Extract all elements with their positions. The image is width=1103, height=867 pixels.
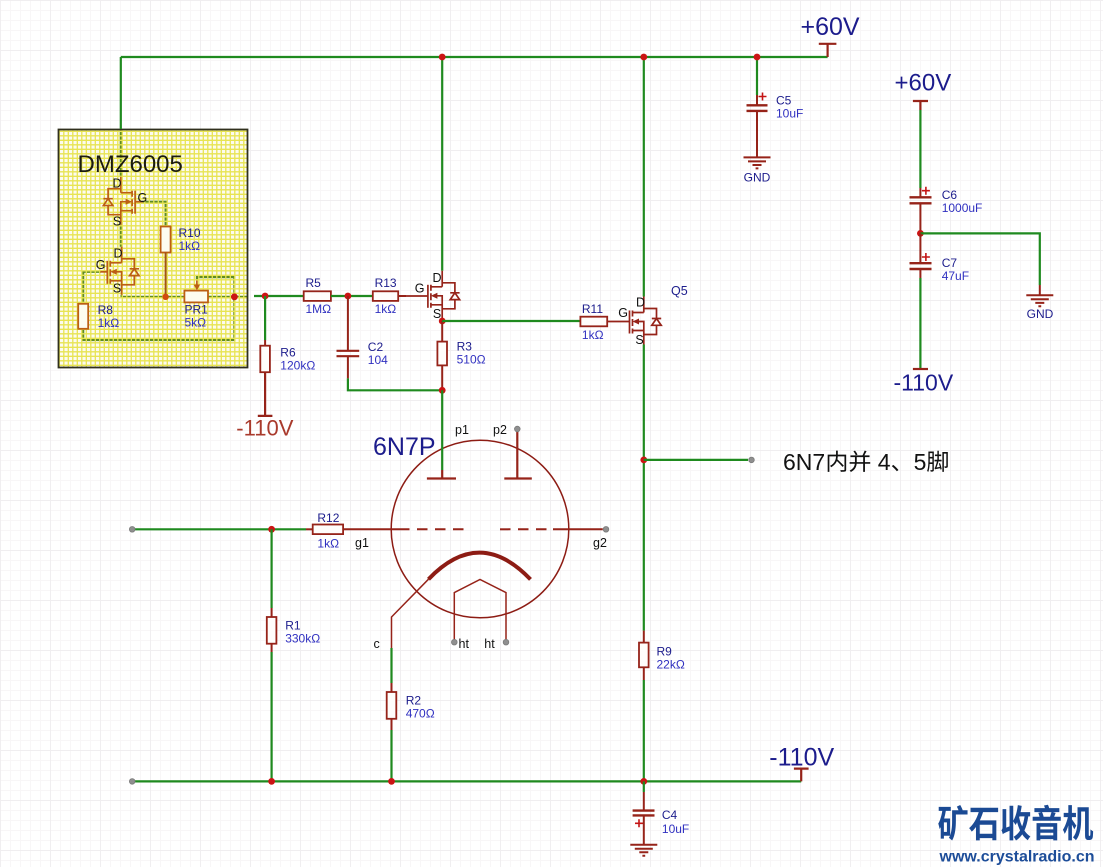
svg-text:120kΩ: 120kΩ bbox=[280, 358, 315, 372]
cathode lead c bbox=[392, 579, 429, 648]
highlight box DMZ6005 bbox=[59, 130, 248, 368]
ground below C5 bbox=[744, 157, 771, 168]
box border bbox=[59, 130, 248, 368]
transistor unnamed MOSFET near R13 bbox=[398, 295, 428, 297]
svg-text:1kΩ: 1kΩ bbox=[375, 302, 397, 316]
wire Q5 source down bbox=[643, 345, 645, 631]
junction PR1 right bbox=[231, 293, 238, 300]
svg-text:PR1: PR1 bbox=[185, 303, 209, 317]
svg-text:D: D bbox=[636, 296, 645, 310]
resistor R10 bbox=[161, 227, 171, 253]
wire between MOSFETs bbox=[120, 225, 122, 247]
svg-text:1000uF: 1000uF bbox=[942, 201, 983, 215]
capacitor C2 bbox=[347, 296, 349, 351]
wire 6N7 tap bbox=[644, 459, 748, 461]
svg-text:R3: R3 bbox=[457, 340, 473, 354]
svg-text:-110V: -110V bbox=[769, 744, 834, 772]
svg-text:22kΩ: 22kΩ bbox=[657, 657, 685, 671]
svg-text:G: G bbox=[618, 306, 628, 320]
svg-text:1kΩ: 1kΩ bbox=[179, 239, 201, 253]
junction node R6 bbox=[262, 293, 269, 300]
wire R8 to bottom loop bbox=[83, 277, 234, 340]
wire R6 to -110V bbox=[258, 372, 273, 416]
svg-text:5kΩ: 5kΩ bbox=[185, 316, 207, 330]
svg-text:G: G bbox=[415, 282, 425, 296]
svg-text:R13: R13 bbox=[375, 276, 397, 290]
wire vertical to Q1 drain bbox=[441, 57, 443, 271]
svg-text:c: c bbox=[374, 637, 380, 651]
resistor R1 bbox=[271, 529, 273, 608]
junction top rail A bbox=[439, 54, 446, 61]
junction node C2 bbox=[345, 293, 352, 300]
svg-text:-110V: -110V bbox=[894, 370, 954, 396]
wire PR1 to box edge bbox=[208, 296, 248, 298]
wire top rail feed into box bbox=[120, 130, 122, 177]
wire R13 to gate bbox=[398, 295, 406, 297]
svg-text:47uF: 47uF bbox=[942, 269, 969, 283]
transistor Q5 bbox=[607, 321, 629, 323]
svg-text:C4: C4 bbox=[662, 808, 678, 822]
resistor R5 bbox=[304, 291, 331, 301]
svg-text:C7: C7 bbox=[942, 256, 958, 270]
svg-text:S: S bbox=[635, 333, 643, 347]
wire S to R11 bbox=[442, 320, 580, 322]
svg-text:g1: g1 bbox=[355, 536, 369, 550]
resistor R13 bbox=[373, 291, 398, 301]
capacitor C6 bbox=[919, 188, 921, 197]
svg-text:Q5: Q5 bbox=[671, 284, 688, 298]
svg-text:1kΩ: 1kΩ bbox=[317, 537, 339, 551]
grid wire g1 g2 bbox=[343, 528, 399, 530]
junction top rail B bbox=[640, 54, 647, 61]
wire lower source to node bbox=[122, 295, 185, 297]
svg-text:g2: g2 bbox=[593, 536, 607, 550]
transistor upper MOSFET in DMZ6005 bbox=[103, 177, 135, 225]
wire R10 to node bbox=[165, 253, 167, 297]
svg-text:R6: R6 bbox=[280, 345, 296, 359]
wire lower gate to R8 bbox=[83, 272, 101, 304]
transistor lower MOSFET in DMZ6005 bbox=[107, 247, 139, 295]
capacitor C7 bbox=[919, 233, 921, 263]
svg-text:S: S bbox=[113, 215, 121, 229]
svg-text:G: G bbox=[138, 191, 148, 205]
svg-text:ht: ht bbox=[459, 637, 470, 651]
svg-text:10uF: 10uF bbox=[776, 107, 803, 121]
junction 6N7 tap bbox=[640, 457, 647, 464]
svg-text:1kΩ: 1kΩ bbox=[582, 328, 604, 342]
svg-text:510Ω: 510Ω bbox=[457, 353, 486, 367]
svg-text:D: D bbox=[112, 177, 121, 191]
power port -110V right bbox=[913, 368, 928, 370]
power port +60V top bbox=[819, 44, 837, 57]
resistor R11 bbox=[580, 317, 607, 327]
svg-text:1MΩ: 1MΩ bbox=[306, 302, 332, 316]
svg-text:C5: C5 bbox=[776, 94, 792, 108]
svg-text:R2: R2 bbox=[406, 694, 422, 708]
wire upper gate to R10 bbox=[142, 202, 166, 227]
svg-text:GND: GND bbox=[744, 171, 771, 185]
svg-text:104: 104 bbox=[368, 353, 388, 367]
svg-text:R8: R8 bbox=[98, 303, 114, 317]
svg-text:R9: R9 bbox=[657, 644, 673, 658]
potentiometer PR1 bbox=[184, 291, 208, 303]
svg-text:C6: C6 bbox=[942, 188, 958, 202]
watermark bbox=[938, 805, 967, 840]
svg-text:R11: R11 bbox=[582, 302, 603, 316]
svg-text:5: 5 bbox=[914, 449, 927, 475]
svg-text:1kΩ: 1kΩ bbox=[98, 316, 120, 330]
svg-text:GND: GND bbox=[1027, 307, 1054, 321]
svg-text:6N7: 6N7 bbox=[783, 449, 825, 475]
junction R10 node bbox=[162, 294, 168, 300]
svg-text:470Ω: 470Ω bbox=[406, 707, 435, 721]
junction bottom R2 bbox=[388, 778, 395, 785]
wire bottom rail bbox=[132, 780, 801, 782]
resistor R9 bbox=[643, 631, 645, 643]
resistor R12 bbox=[306, 528, 313, 530]
mesh overlay bbox=[59, 130, 248, 368]
resistor R3 bbox=[441, 321, 443, 342]
svg-text:+60V: +60V bbox=[801, 13, 860, 41]
svg-text:330kΩ: 330kΩ bbox=[285, 631, 320, 645]
resistor R8 bbox=[78, 304, 88, 329]
svg-text:www.crystalradio.cn: www.crystalradio.cn bbox=[939, 849, 1095, 866]
wire to GND right bbox=[920, 233, 1039, 285]
junction below R3 bbox=[439, 387, 446, 394]
junction R1 top bbox=[268, 526, 275, 533]
plate p2 bbox=[504, 429, 532, 479]
resistor R6 bbox=[260, 346, 270, 373]
svg-text:+60V: +60V bbox=[895, 70, 952, 97]
power port -110V bottom bbox=[794, 769, 809, 782]
svg-text:6N7P: 6N7P bbox=[373, 433, 436, 461]
svg-text:R12: R12 bbox=[317, 511, 339, 525]
svg-text:R1: R1 bbox=[285, 618, 301, 632]
svg-text:G: G bbox=[96, 258, 106, 272]
wire C5 branch bbox=[756, 57, 758, 95]
plate p1 bbox=[441, 390, 443, 470]
wire input row bbox=[132, 528, 306, 530]
junction top rail C5 bbox=[754, 54, 761, 61]
svg-text:DMZ6005: DMZ6005 bbox=[78, 151, 183, 178]
wire R5 to R13 bbox=[331, 295, 373, 297]
svg-text:-110V: -110V bbox=[236, 416, 293, 441]
svg-text:p2: p2 bbox=[493, 423, 507, 437]
junction C6 C7 bbox=[917, 230, 924, 237]
svg-text:10uF: 10uF bbox=[662, 822, 689, 836]
heater bbox=[454, 580, 506, 643]
svg-text:4: 4 bbox=[878, 449, 891, 475]
svg-text:D: D bbox=[432, 271, 441, 285]
wire node row bbox=[254, 295, 304, 297]
svg-text:D: D bbox=[113, 247, 122, 261]
svg-text:ht: ht bbox=[484, 637, 495, 651]
svg-text:C2: C2 bbox=[368, 340, 384, 354]
svg-text:R5: R5 bbox=[306, 276, 322, 290]
svg-text:p1: p1 bbox=[455, 423, 469, 437]
svg-text:S: S bbox=[113, 282, 121, 296]
wire top rail bbox=[121, 57, 828, 129]
junction bottom C4 bbox=[640, 778, 647, 785]
capacitor C4 bbox=[643, 781, 645, 792]
junction source Q1 bbox=[439, 318, 446, 325]
svg-text:R10: R10 bbox=[179, 226, 201, 240]
cathode arc bbox=[429, 553, 531, 580]
capacitor C5 bbox=[756, 95, 758, 105]
resistor R2 bbox=[390, 648, 392, 683]
vacuum tube 6N7P envelope bbox=[391, 440, 569, 618]
wire node to R6 bbox=[264, 296, 266, 340]
wire vertical to Q5 drain bbox=[643, 57, 645, 297]
junction bottom R1 bbox=[268, 778, 275, 785]
